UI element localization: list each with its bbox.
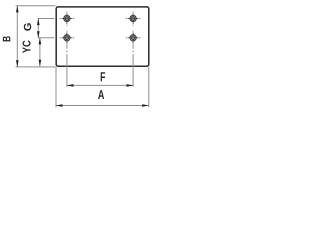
- dimension A arrow left: [56, 104, 63, 107]
- plate outline: [56, 7, 149, 66]
- dimension B arrow down: [16, 60, 19, 67]
- hole top-left crosshair: [60, 12, 74, 26]
- extension line hole row1 left: [38, 18, 54, 20]
- dimension A line: [56, 105, 149, 107]
- dimension YC line: [39, 38, 41, 67]
- dimension B line: [16, 6, 18, 67]
- hole top-left circles: [64, 15, 70, 21]
- label B: [3, 36, 11, 41]
- extension line hole col left down (centerline dashes): [66, 44, 68, 87]
- dimension YC arrow up: [39, 38, 42, 45]
- dimension G line: [37, 19, 39, 38]
- dimension YC arrow down: [39, 60, 42, 67]
- dimension F arrow left: [67, 84, 74, 87]
- dimension F line: [67, 84, 133, 86]
- hole top-right crosshair: [126, 12, 140, 26]
- dimension G arrow down: [37, 31, 40, 38]
- extension line bottom-left (plate bottom to B): [16, 66, 56, 68]
- hole bottom-left circles: [64, 35, 70, 41]
- extension line plate right corner down: [148, 67, 150, 107]
- hole bottom-left crosshair: [60, 31, 74, 43]
- hole bottom-right circles: [130, 35, 136, 41]
- label F: [101, 72, 105, 81]
- label YC: [23, 41, 31, 54]
- extension line plate left corner down: [55, 67, 57, 107]
- extension line hole row2 left: [38, 37, 54, 39]
- extension line hole col right down (centerline dashes): [132, 44, 134, 87]
- dimension G arrow up: [37, 18, 40, 25]
- dimension F arrow right: [127, 84, 134, 87]
- extension line top-left (plate top to B): [16, 5, 56, 7]
- label A: [98, 90, 104, 99]
- hole top-right circles: [130, 15, 136, 21]
- dimension B arrow up: [16, 6, 19, 13]
- label G: [24, 23, 31, 30]
- dimension A arrow right: [142, 104, 149, 107]
- hole bottom-right crosshair: [126, 31, 140, 43]
